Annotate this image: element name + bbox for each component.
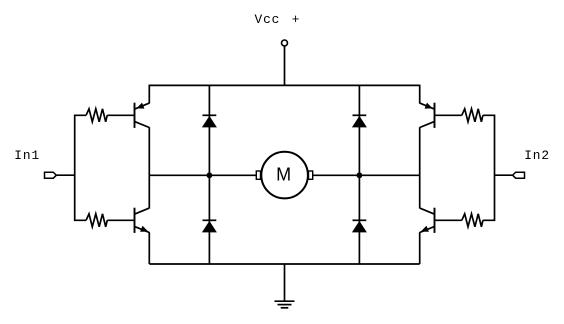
resistor R4 bottom-right <box>462 214 483 227</box>
svg-text:In1: In1 <box>14 148 40 163</box>
svg-text:M: M <box>276 165 291 185</box>
wire Q3 emitter riser <box>419 85 421 104</box>
net label Vcc + <box>255 12 301 27</box>
resistor R1 top-left <box>86 109 107 122</box>
wire Q1 collector drop <box>148 127 150 175</box>
diode D3 top-right <box>352 115 367 127</box>
diode D4 bottom-right <box>352 220 367 232</box>
terminal In2 <box>513 172 525 178</box>
wire right diode column <box>358 85 360 264</box>
transistor Q2 bottom-left NPN <box>135 208 150 233</box>
wire Q1 emitter riser <box>148 85 150 104</box>
wire R3 to Q3 base <box>435 114 461 116</box>
svg-text:Vcc: Vcc <box>255 12 281 27</box>
transistor Q3 top-right PNP <box>420 103 435 128</box>
wire top rail <box>149 84 419 86</box>
svg-text:In2: In2 <box>524 148 550 163</box>
wire R4 to Q4 base <box>435 219 461 221</box>
wire Vcc drop to top rail <box>284 46 286 85</box>
wire Q4 collector rise <box>419 175 421 208</box>
resistor R2 bottom-left <box>86 214 107 227</box>
wire In1 stub <box>56 174 74 176</box>
wire Q3 collector drop <box>419 127 421 175</box>
wire ground drop <box>284 264 286 301</box>
wire motor row right <box>313 174 420 176</box>
wire bottom rail <box>149 263 419 265</box>
wire In2 stub <box>495 174 513 176</box>
junction node left motor row <box>207 172 213 178</box>
svg-text:+: + <box>292 12 301 27</box>
net label In2 <box>524 148 550 163</box>
wire R2 to Q2 base <box>107 219 133 221</box>
terminal In1 <box>45 172 57 178</box>
ground <box>275 301 295 308</box>
junction node right motor row <box>357 172 363 178</box>
resistor R3 top-right <box>462 109 483 122</box>
motor M <box>256 152 312 199</box>
wire motor row left <box>149 174 256 176</box>
transistor Q1 top-left PNP <box>135 103 150 128</box>
transistor Q4 bottom-right NPN <box>420 208 435 233</box>
wire Q2 emitter drop <box>148 232 150 264</box>
diode D1 top-left <box>202 115 217 127</box>
wire R1 to Q1 base <box>107 114 133 116</box>
wire In2 bus to R3 and R4 <box>483 115 495 220</box>
wire Q4 emitter drop <box>419 232 421 264</box>
wire left diode column <box>208 85 210 264</box>
terminal Vcc <box>282 40 288 46</box>
net label In1 <box>14 148 40 163</box>
diode D2 bottom-left <box>202 220 217 232</box>
wire Q2 collector rise <box>148 175 150 208</box>
wire In1 bus to R1 and R2 <box>75 115 86 220</box>
